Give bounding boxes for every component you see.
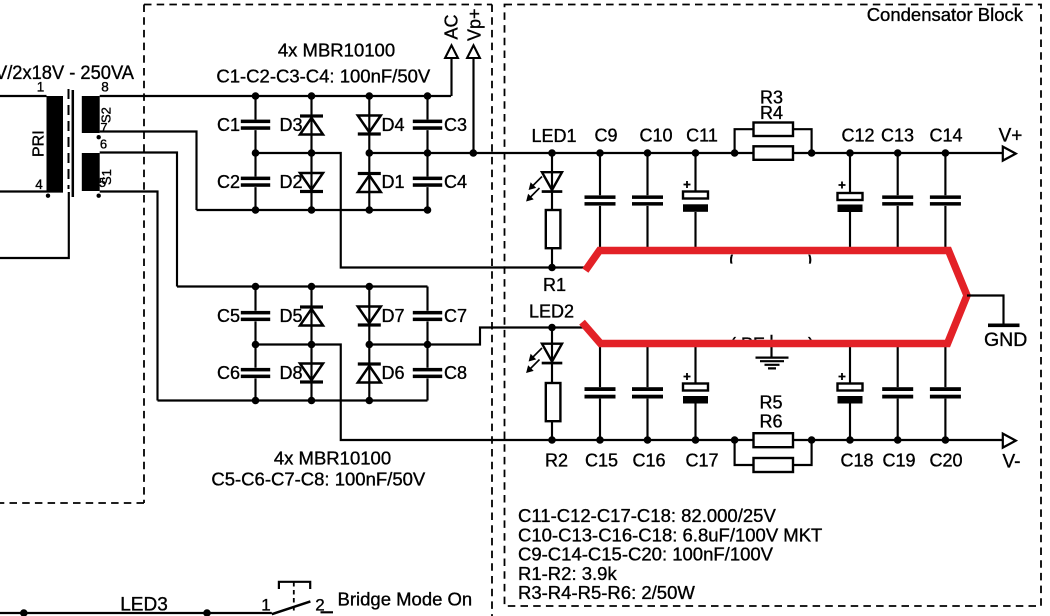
transformer secondary winding S2 [82, 96, 100, 133]
wire pin 4 return (down and left) [0, 192, 69, 258]
node V+ arrow [1003, 147, 1016, 161]
svg-text:2: 2 [315, 596, 324, 615]
rectifier block border (middle, dashed) [144, 5, 492, 616]
wire column C5/C6 [254, 287, 256, 401]
svg-text:C15: C15 [585, 451, 618, 471]
svg-text:R2: R2 [545, 451, 568, 471]
diode D1 (cathode up) [358, 172, 381, 175]
wire LED2 net (mid-right rail jog up) [369, 328, 588, 345]
node AC arrow [450, 58, 452, 96]
LED1 emission arrows [526, 177, 542, 202]
hidden node label fragments: parentheses peeking below red top edge [729, 249, 812, 270]
wire V- net (mid-left rail down to V- rail) [256, 345, 1004, 441]
svg-text:C8: C8 [444, 363, 467, 383]
wire column C7/C8 [426, 287, 428, 401]
svg-text:C20: C20 [929, 451, 962, 471]
wire pin 4 to left edge [0, 190, 63, 192]
resistor R4 (in line) [754, 146, 794, 160]
svg-text:D3: D3 [279, 115, 302, 135]
svg-text:C2: C2 [217, 172, 240, 192]
svg-text:C9-C14-C15-C20: 100nF/100V: C9-C14-C15-C20: 100nF/100V [518, 544, 774, 565]
svg-text:C10-C13-C16-C18: 6.8uF/100V MK: C10-C13-C16-C18: 6.8uF/100V MKT [518, 524, 822, 545]
transformer core (dashed line) [68, 89, 70, 189]
svg-text:R5: R5 [759, 393, 782, 413]
junction dot R1 return [548, 264, 556, 272]
ground GND wire [967, 296, 1004, 324]
svg-text:D4: D4 [382, 115, 405, 135]
svg-text:7: 7 [100, 120, 107, 135]
switch actuator bracket [279, 582, 310, 589]
svg-text:Condensator Block: Condensator Block [867, 4, 1024, 25]
condensator block border (right, dashed) [505, 5, 1042, 607]
capacitor C4 [413, 177, 442, 181]
svg-text:D7: D7 [382, 306, 405, 326]
junction dots lower bridge mid rail [252, 341, 260, 349]
svg-text:4: 4 [35, 177, 43, 192]
capacitor C17 (polarized) [694, 347, 696, 440]
svg-text:C6: C6 [217, 363, 240, 383]
svg-text:C17: C17 [685, 451, 718, 471]
svg-text:R4: R4 [760, 103, 783, 123]
svg-text:C16: C16 [632, 451, 665, 471]
svg-text:4x MBR10100: 4x MBR10100 [274, 448, 391, 469]
wire lower bridge top rail [177, 285, 428, 287]
wire bottom (LED3 row) [0, 612, 272, 614]
polarity dot S1 [97, 194, 101, 198]
svg-text:D5: D5 [279, 306, 302, 326]
junction dot [203, 609, 211, 616]
capacitor C16 [646, 347, 648, 440]
resistor R6 (parallel, lower) [735, 440, 812, 465]
svg-text:1: 1 [37, 80, 45, 95]
diode D6 (cathode up) [358, 362, 381, 365]
transformer block border (left, dashed) [0, 5, 144, 504]
junction dot LED2 rail [548, 324, 556, 332]
svg-text:C9: C9 [594, 126, 617, 146]
polarity dot S2 [97, 135, 101, 139]
svg-text:R6: R6 [759, 412, 782, 432]
switch actuator link (dashed) [293, 582, 295, 611]
svg-text:C5-C6-C7-C8: 100nF/50V: C5-C6-C7-C8: 100nF/50V [211, 469, 426, 490]
svg-text:Bridge Mode On: Bridge Mode On [338, 589, 473, 610]
wire pin 6 to lower bridge top rail [100, 153, 177, 287]
wire column D5/D8 [310, 287, 312, 401]
wire column C3/C4 [426, 96, 428, 210]
diode D8 (cathode down) [300, 364, 323, 381]
svg-text:8: 8 [101, 80, 109, 95]
wire top bridge mid-left rail to R1 return [256, 153, 592, 268]
transformer secondary winding S1 [82, 153, 100, 191]
svg-text:D1: D1 [382, 172, 405, 192]
junction dots lower bridge bottom rail [252, 397, 260, 405]
resistor R5 (in line) [754, 433, 794, 447]
transformer primary winding PRI [47, 96, 64, 191]
svg-text:C10: C10 [639, 126, 672, 146]
svg-text:C12: C12 [841, 126, 874, 146]
switch S1 lever [272, 601, 311, 614]
svg-text:D6: D6 [382, 363, 405, 383]
capacitor C12 (polarized) [849, 153, 851, 248]
LED2 emission arrows [526, 348, 542, 373]
svg-text:C13: C13 [881, 126, 914, 146]
svg-text:1: 1 [261, 596, 270, 615]
capacitor C14 [944, 153, 946, 248]
wire pin 8 to top rail [100, 95, 451, 97]
svg-text:C14: C14 [929, 126, 962, 146]
svg-text:V/2x18V - 250VA: V/2x18V - 250VA [0, 62, 134, 84]
svg-text:R1: R1 [543, 275, 566, 295]
capacitor C20 [944, 347, 946, 440]
resistor R3 (parallel, upper) [735, 129, 812, 153]
capacitor C15 [599, 347, 601, 440]
capacitor C7 [413, 311, 442, 315]
wire pin 7 to rectifier lower rail [100, 132, 197, 211]
svg-text:GND: GND [984, 329, 1027, 351]
diode D2 (cathode down) [300, 173, 323, 190]
wire column D7/D6 [368, 287, 370, 401]
svg-text:C1: C1 [217, 115, 240, 135]
svg-text:C18: C18 [840, 451, 873, 471]
svg-text:C3: C3 [444, 115, 467, 135]
wire column C1 [254, 96, 256, 210]
svg-text:C1-C2-C3-C4: 100nF/50V: C1-C2-C3-C4: 100nF/50V [216, 65, 431, 86]
capacitor C3 [413, 120, 442, 124]
svg-text:R1-R2: 3.9k: R1-R2: 3.9k [518, 563, 617, 584]
node Vp+ arrow [472, 58, 474, 153]
capacitor C9 [599, 153, 601, 248]
svg-text:5: 5 [99, 175, 106, 190]
diode D4 (cathode down) [358, 116, 381, 133]
capacitor C5 [241, 311, 270, 315]
capacitor C19 [897, 347, 899, 440]
capacitor C13 [897, 153, 899, 248]
diode D7 (cathode down) [358, 307, 381, 324]
svg-text:D8: D8 [279, 363, 302, 383]
svg-text:C5: C5 [217, 306, 240, 326]
wire column D3/D2 [310, 96, 312, 210]
red marker annotation (hand-drawn hexagon highlight) [585, 251, 968, 344]
junction dots mid rail [252, 149, 260, 157]
wire top bridge lower rail [197, 209, 428, 211]
svg-text:V-: V- [1003, 452, 1021, 473]
node V- arrow [1003, 434, 1016, 448]
svg-text:6: 6 [100, 137, 107, 152]
wire pin 1 to left edge [0, 95, 47, 97]
capacitor C8 [413, 368, 442, 372]
svg-text:Vp+: Vp+ [465, 8, 485, 41]
junction dots top rail [252, 92, 260, 100]
svg-text:PRI: PRI [31, 130, 48, 157]
polarity dot PRI [46, 194, 50, 198]
LED LED1 [551, 153, 553, 210]
capacitor C18 (polarized) [849, 347, 851, 440]
svg-text:4x MBR10100: 4x MBR10100 [278, 40, 395, 61]
junction dots lower bridge top rail [252, 283, 260, 291]
junction dots V- rail [548, 436, 556, 444]
LED LED2 [551, 328, 553, 384]
svg-text:R3-R4-R5-R6: 2/50W: R3-R4-R5-R6: 2/50W [518, 582, 695, 603]
capacitor C11 (polarized) [694, 153, 696, 248]
svg-text:LED2: LED2 [529, 302, 574, 322]
svg-text:C11-C12-C17-C18: 82.000/25V: C11-C12-C17-C18: 82.000/25V [518, 505, 776, 526]
svg-text:C4: C4 [444, 172, 467, 192]
wire column D4/D1 [368, 96, 370, 210]
svg-text:LED3: LED3 [120, 595, 168, 616]
PE earth symbol [770, 347, 772, 357]
svg-text:D2: D2 [279, 172, 302, 192]
diode D5 (cathode up) [300, 305, 323, 308]
junction dot [20, 609, 28, 616]
junction dots V+ rail [548, 149, 556, 157]
resistor R1 [546, 210, 561, 248]
wire V+ net (bridge mid-right rail to V+ arrow) [369, 152, 1003, 154]
switch pin 2 stub [321, 611, 334, 613]
hidden node label fragment: ( PE ... ) peeking above red bottom edge [730, 334, 814, 354]
svg-text:AC: AC [442, 14, 462, 39]
capacitor C2 [241, 177, 270, 181]
wire lower bridge bottom rail [158, 399, 428, 401]
capacitor C10 [646, 153, 648, 248]
capacitor C6 [241, 368, 270, 372]
svg-text:C7: C7 [444, 306, 467, 326]
svg-text:C19: C19 [882, 451, 915, 471]
svg-text:V+: V+ [999, 126, 1023, 147]
wire pin 5 to lower bridge bottom rail [100, 192, 158, 401]
svg-text:C11: C11 [686, 126, 718, 146]
svg-text:LED1: LED1 [531, 126, 576, 146]
diode D3 (cathode up) [300, 114, 323, 117]
capacitor C1 [241, 120, 270, 124]
resistor R2 [546, 383, 561, 421]
ground GND bar [988, 324, 1020, 328]
junction dots lower rail [252, 206, 260, 214]
transformer core (solid line) [72, 90, 75, 197]
